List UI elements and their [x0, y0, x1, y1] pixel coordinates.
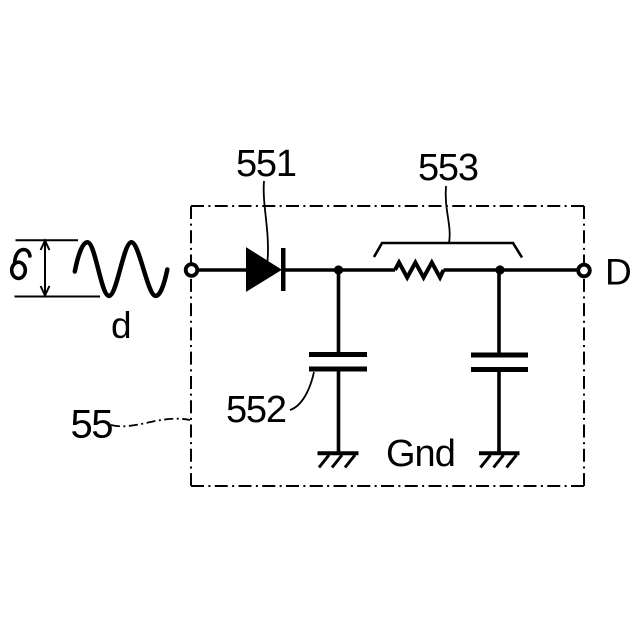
output terminal [578, 265, 590, 277]
leader 553 [446, 186, 450, 243]
svg-text:Gnd: Gnd [386, 433, 455, 475]
ground 1 [318, 453, 359, 467]
svg-text:55: 55 [71, 403, 113, 447]
svg-text:d: d [111, 305, 132, 346]
svg-text:551: 551 [236, 143, 296, 185]
svg-text:552: 552 [226, 389, 286, 431]
wire input to diode [196, 268, 248, 272]
amplitude arrow [41, 241, 50, 296]
label delta [12, 250, 30, 279]
amplitude ref line top [16, 239, 79, 241]
svg-text:553: 553 [418, 147, 478, 189]
bracket 553 [374, 243, 522, 258]
wire diode to node A [285, 268, 395, 272]
ground 2 [479, 453, 520, 467]
leader 552 [290, 372, 314, 410]
amplitude ref line bottom [15, 296, 101, 298]
resistor 553 [395, 263, 444, 278]
leader 551 [264, 181, 268, 261]
wire C1 to ground 1 [337, 372, 341, 453]
sine wave d [75, 242, 168, 296]
capacitor C2 [471, 353, 528, 373]
diode 551 [247, 248, 286, 291]
wire resistor to node B to output [444, 268, 580, 272]
wire node B down to C2 [497, 270, 501, 353]
leader 55 [111, 419, 190, 427]
wire C2 to ground 2 [497, 372, 501, 452]
wire node A down to C1 [337, 270, 341, 353]
node A junction [334, 265, 343, 274]
enclosure box 55 [191, 206, 584, 486]
capacitor 552 [309, 352, 367, 372]
input terminal [186, 264, 198, 276]
node B junction [495, 265, 504, 274]
svg-text:D: D [605, 252, 632, 293]
